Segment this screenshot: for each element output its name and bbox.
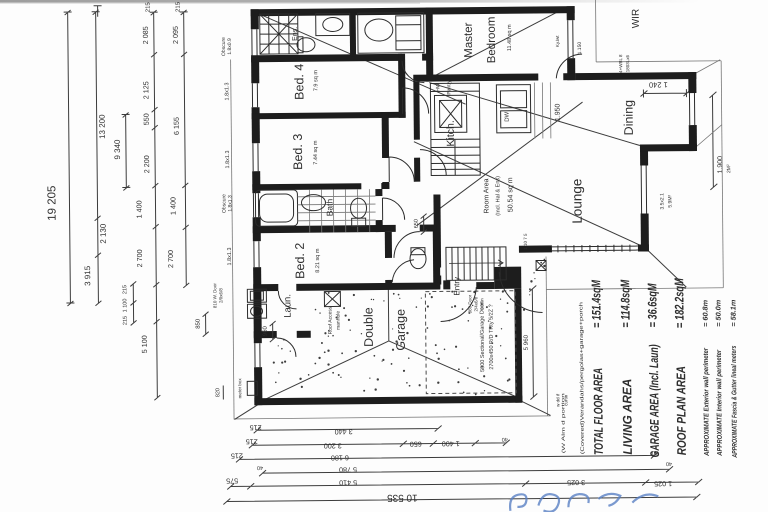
svg-text:13 200: 13 200: [98, 114, 107, 139]
dim 820 meter: [215, 386, 223, 400]
porch post: [536, 260, 546, 270]
porch wall block: [494, 267, 521, 289]
svg-text:2 125: 2 125: [141, 81, 150, 99]
svg-text:2 700: 2 700: [135, 249, 144, 267]
svg-text:1 100: 1 100: [122, 299, 128, 313]
svg-text:Room Area: Room Area: [483, 178, 490, 213]
ensuite toilet: [297, 37, 315, 53]
dimension line 19205 overall: [45, 10, 75, 306]
svg-text:Ens.: Ens.: [292, 27, 299, 41]
bathroom vanity basin: [301, 195, 325, 211]
dining east wall with window: [688, 72, 697, 151]
svg-text:1 400: 1 400: [442, 439, 460, 448]
interior wall hall-kitchen: [413, 82, 420, 182]
svg-text:5 410: 5 410: [339, 478, 357, 487]
bottom dimension row 575/5410/3025/1025: [226, 472, 702, 493]
svg-text:TOTAL FLOOR AREA: TOTAL FLOOR AREA: [591, 368, 606, 455]
svg-text:1.150: 1.150: [577, 42, 583, 55]
garage door label: [479, 302, 495, 372]
svg-text:50.54 sq m: 50.54 sq m: [507, 177, 514, 212]
svg-text:2/4x6/8: 2/4x6/8: [473, 296, 478, 311]
svg-text:Bedroom: Bedroom: [486, 17, 498, 64]
lounge window size note: [659, 193, 673, 210]
bottom dimension row 215/3200/650/1400: [246, 435, 510, 452]
svg-text:40: 40: [666, 460, 672, 466]
garage side tiny note: [555, 393, 568, 407]
svg-text:Kitch.: Kitch.: [445, 120, 457, 146]
lounge south wall: [519, 244, 649, 252]
svg-text:2 130: 2 130: [99, 223, 108, 244]
garage door dashed: [425, 291, 516, 394]
room label master bedroom: [463, 16, 513, 63]
svg-text:1 400: 1 400: [134, 200, 143, 218]
door arc bed3: [389, 157, 414, 182]
roof diagonal D kitchen-dining: [429, 81, 640, 148]
meter box: [247, 381, 257, 395]
roof diagonal C hall: [416, 102, 584, 226]
exterior wall left with window gaps: [251, 9, 263, 405]
interior wall ensuite-wc: [350, 12, 356, 56]
svg-text:Ky.lwt: Ky.lwt: [555, 35, 560, 47]
door arc master: [556, 54, 582, 78]
bottom dimension row 215/6180: [231, 447, 658, 463]
svg-text:9 340: 9 340: [113, 139, 122, 160]
svg-text:meter box: meter box: [237, 378, 242, 399]
bathroom tiles: [297, 189, 375, 233]
room area note: [483, 176, 514, 216]
door arc wc hall: [394, 232, 420, 258]
svg-text:215: 215: [231, 451, 243, 460]
svg-text:19 205: 19 205: [46, 186, 58, 221]
roof access manhole: [324, 291, 340, 306]
interior wall bed2 south / garage north: [253, 282, 440, 291]
svg-text:= 36.6sqM: = 36.6sqM: [645, 283, 659, 328]
svg-text:Bath: Bath: [324, 198, 334, 216]
bottom dimension row 5780: [257, 460, 673, 476]
svg-text:Lounge: Lounge: [569, 179, 584, 224]
svg-text:550: 550: [142, 113, 151, 125]
svg-text:1 10 7 5: 1 10 7 5: [523, 233, 528, 250]
room label bed3: [291, 134, 319, 170]
area schedule block: [559, 277, 739, 460]
master bedroom east wall with window: [567, 6, 576, 80]
dimension line 9340: [113, 112, 131, 190]
dimension line room tier 1: [133, 1, 162, 400]
svg-text:40: 40: [502, 436, 508, 442]
room label double garage: [361, 307, 407, 351]
svg-text:1 240: 1 240: [649, 80, 668, 89]
svg-text:Entry: Entry: [452, 277, 461, 296]
wc bath tub: [358, 13, 424, 54]
exterior wall garage bottom: [254, 396, 522, 406]
svg-text:1.950: 1.950: [555, 103, 562, 121]
svg-text:5 960: 5 960: [523, 334, 530, 350]
svg-text:Bed. 2: Bed. 2: [293, 243, 307, 279]
svg-text:Garage: Garage: [394, 309, 408, 351]
interior wall bed3 south: [252, 183, 389, 190]
lounge east wall with window: [640, 144, 649, 251]
interior wall ensuite south: [251, 54, 433, 63]
eave outline lounge bottom: [546, 288, 723, 290]
door arc laundry: [278, 291, 296, 309]
door arc bath: [382, 198, 404, 220]
svg-text:7.9 sq m: 7.9 sq m: [313, 70, 319, 92]
door arc ensuite: [402, 61, 424, 83]
bath tub bathroom: [255, 190, 297, 226]
svg-text:2 700: 2 700: [166, 250, 175, 268]
svg-text:2M²: 2M²: [726, 164, 732, 173]
hip corner garage left: [234, 401, 263, 419]
svg-text:= 114.8sqM: = 114.8sqM: [618, 279, 632, 328]
garage roof ridge: [387, 286, 390, 341]
svg-text:215: 215: [246, 437, 258, 446]
svg-text:1 025: 1 025: [654, 479, 672, 488]
pantry door: [420, 149, 446, 175]
door arc bed4: [402, 88, 428, 114]
svg-text:ROOF PLAN AREA: ROOF PLAN AREA: [674, 366, 689, 455]
interior wall bed2 east: [385, 232, 393, 289]
svg-text:215: 215: [123, 316, 129, 325]
eave outline bottom: [234, 416, 550, 419]
svg-text:3.5x2.1: 3.5x2.1: [659, 193, 665, 210]
svg-text:215: 215: [146, 2, 152, 13]
eave outline left: [231, 59, 234, 419]
svg-text:Dining: Dining: [622, 100, 636, 136]
svg-text:1.8x0.9: 1.8x0.9: [227, 38, 233, 55]
svg-text:= 151.4sqM: = 151.4sqM: [589, 279, 603, 328]
svg-text:1803Lx6: 1803Lx6: [625, 55, 630, 73]
svg-text:= 50.0m: = 50.0m: [715, 300, 722, 327]
laundry tub and washer: [247, 289, 266, 318]
svg-text:(Incl. Hal & Ens): (Incl. Hal & Ens): [495, 176, 501, 216]
svg-text:APPROXIMATE Interior wall peri: APPROXIMATE Interior wall perimeter: [716, 349, 724, 457]
svg-text:40: 40: [257, 464, 263, 470]
wc toilet bed2 side: [410, 248, 426, 269]
sliding door hatch lounge: [552, 245, 638, 253]
svg-text:5 100: 5 100: [140, 335, 149, 353]
ensuite vanity: [316, 13, 350, 35]
stipple dots garage: [272, 259, 547, 398]
kitchen bench: [430, 83, 480, 175]
blue handwriting: [510, 493, 658, 512]
svg-text:8.21 sq m: 8.21 sq m: [315, 248, 321, 273]
svg-text:GARAGE AREA (Incl. Laun): GARAGE AREA (Incl. Laun): [647, 344, 662, 457]
svg-text:DW: DW: [505, 111, 511, 121]
svg-text:3 915: 3 915: [83, 265, 92, 286]
roof diagonal E lounge: [414, 140, 643, 249]
eave outline right: [721, 61, 723, 288]
dimension line room tier 2: [164, 1, 191, 288]
interior wall bed4 south: [252, 112, 406, 119]
dim 650 hall: [414, 214, 427, 235]
svg-text:2 085: 2 085: [141, 26, 150, 44]
svg-text:APPROXIMATE Fascia & Gutter li: APPROXIMATE Fascia & Gutter lineal meter…: [731, 346, 739, 459]
roof diagonal A ensuite: [251, 8, 466, 106]
svg-text:1.8x1.3: 1.8x1.3: [225, 150, 231, 168]
dining north wall: [575, 72, 696, 80]
stub tick top left: [94, 6, 102, 17]
dim 1900 dining side: [709, 92, 732, 190]
svg-text:APPROXIMATE Exterior wall peri: APPROXIMATE Exterior wall perimeter: [703, 347, 711, 457]
interior wall bed3 east: [382, 112, 390, 189]
svg-text:860 Door: 860 Door: [467, 294, 472, 313]
svg-text:5.9M²: 5.9M²: [667, 194, 673, 207]
mini dimension 215/1100/215: [122, 281, 136, 325]
svg-text:810 W. Door: 810 W. Door: [212, 283, 217, 309]
svg-text:3 025: 3 025: [567, 478, 585, 487]
svg-text:215: 215: [122, 285, 128, 294]
svg-text:Double: Double: [361, 307, 375, 347]
door arc porch: [499, 271, 542, 312]
hip corner garage right: [520, 400, 550, 415]
door arc laundry south: [277, 338, 296, 357]
interior wall bath south: [253, 224, 437, 233]
850 side tick: [196, 312, 209, 337]
room label bed2: [293, 242, 321, 278]
kitchen small labels: [435, 79, 561, 123]
svg-text:215: 215: [176, 1, 182, 12]
door arc bed2: [392, 260, 414, 282]
exterior wall garage right: [514, 289, 522, 403]
svg-text:850: 850: [196, 318, 202, 329]
interior wall master west: [426, 8, 434, 82]
bottom dimension row 10535 overall: [223, 489, 700, 505]
stairs entry: [446, 247, 506, 281]
svg-text:7.44 sq m: 7.44 sq m: [313, 140, 319, 165]
svg-text:LIVING AREA: LIVING AREA: [620, 379, 635, 455]
garage hip left: [263, 341, 390, 400]
bathroom wc: [350, 198, 366, 226]
svg-text:HW: HW: [435, 83, 441, 92]
svg-text:1.900: 1.900: [717, 156, 724, 174]
svg-text:3 440: 3 440: [335, 427, 353, 436]
dimension line 13200/2130/3915: [81, 10, 109, 306]
svg-text:Bed. 4: Bed. 4: [292, 64, 306, 100]
svg-text:manhole: manhole: [336, 311, 342, 330]
interior wall bath east: [375, 189, 382, 232]
svg-text:2 095: 2 095: [171, 26, 180, 44]
roof access label: [327, 306, 341, 334]
dim 1240 dining window: [640, 80, 690, 97]
exterior wall top: [251, 6, 575, 16]
entry south wall: [443, 280, 494, 289]
room label bed4: [292, 63, 319, 99]
svg-text:5 780: 5 780: [339, 465, 357, 474]
svg-text:Master: Master: [463, 22, 475, 57]
svg-text:= 58.1m: = 58.1m: [730, 300, 737, 327]
bottom dimension row 215/3440: [250, 421, 442, 437]
svg-text:(W Alm d portion: (W Alm d portion: [560, 392, 566, 453]
svg-text:= 182.2sqM: = 182.2sqM: [672, 278, 686, 329]
door arc front entry: [440, 287, 476, 321]
svg-text:4+WBL 8: 4+WBL 8: [618, 54, 623, 73]
svg-text:= 60.8m: = 60.8m: [702, 300, 709, 327]
kitchen fridge space: [534, 82, 551, 138]
windows left wall: [252, 29, 260, 367]
roof diagonal B master: [427, 7, 568, 79]
svg-text:WIR: WIR: [631, 9, 642, 29]
garage hip right: [389, 340, 519, 399]
eave outline garage right: [546, 256, 548, 415]
window size notes left margin: [210, 37, 236, 308]
dim 5960 garage side: [522, 286, 537, 400]
svg-text:5000 Sectional/Garage Door: 5000 Sectional/Garage Door: [479, 302, 486, 372]
svg-text:3 200: 3 200: [324, 441, 342, 450]
kitchen stove: [434, 95, 466, 132]
svg-text:1 Win: 1 Win: [479, 298, 484, 310]
master side tiny notes: [555, 34, 630, 74]
svg-text:11.48 sq m: 11.48 sq m: [507, 24, 513, 51]
svg-text:2/0x6/8: 2/0x6/8: [218, 288, 223, 303]
interior wall stairs west: [433, 194, 441, 284]
laundry south wall: [254, 331, 311, 339]
svg-text:820: 820: [215, 388, 221, 397]
step wall lounge-dining: [640, 144, 697, 152]
front door note: [467, 294, 484, 313]
svg-text:2 200: 2 200: [142, 155, 151, 173]
svg-text:2700x450 R/D TRty 5/2Z ?: 2700x450 R/D TRty 5/2Z ?: [488, 304, 495, 369]
interior wall bed4 east: [398, 54, 406, 118]
svg-text:575: 575: [226, 476, 238, 485]
svg-text:215: 215: [250, 423, 262, 432]
svg-text:Pantry: Pantry: [446, 80, 452, 95]
hip corner dining: [694, 60, 722, 147]
svg-text:1 400: 1 400: [168, 197, 177, 215]
dim 960 laundry: [263, 321, 276, 342]
svg-text:Laun.: Laun.: [282, 294, 293, 318]
kitchen sink: [496, 85, 530, 133]
svg-text:650: 650: [414, 219, 420, 228]
svg-text:Bed. 3: Bed. 3: [291, 134, 305, 170]
svg-text:1.8x1.3: 1.8x1.3: [227, 195, 233, 212]
eave outline top right: [596, 0, 722, 62]
svg-text:6 155: 6 155: [172, 117, 181, 135]
interior wall wc east: [433, 231, 441, 288]
interior wall kitchen north: [413, 73, 575, 82]
svg-text:650: 650: [410, 440, 422, 449]
svg-text:960: 960: [263, 325, 269, 336]
ensuite shower: [260, 14, 298, 54]
svg-text:10 535: 10 535: [387, 492, 418, 503]
svg-text:1.8x1.3: 1.8x1.3: [224, 82, 230, 100]
svg-text:6 180: 6 180: [331, 453, 349, 462]
hip corner lounge: [647, 249, 686, 287]
